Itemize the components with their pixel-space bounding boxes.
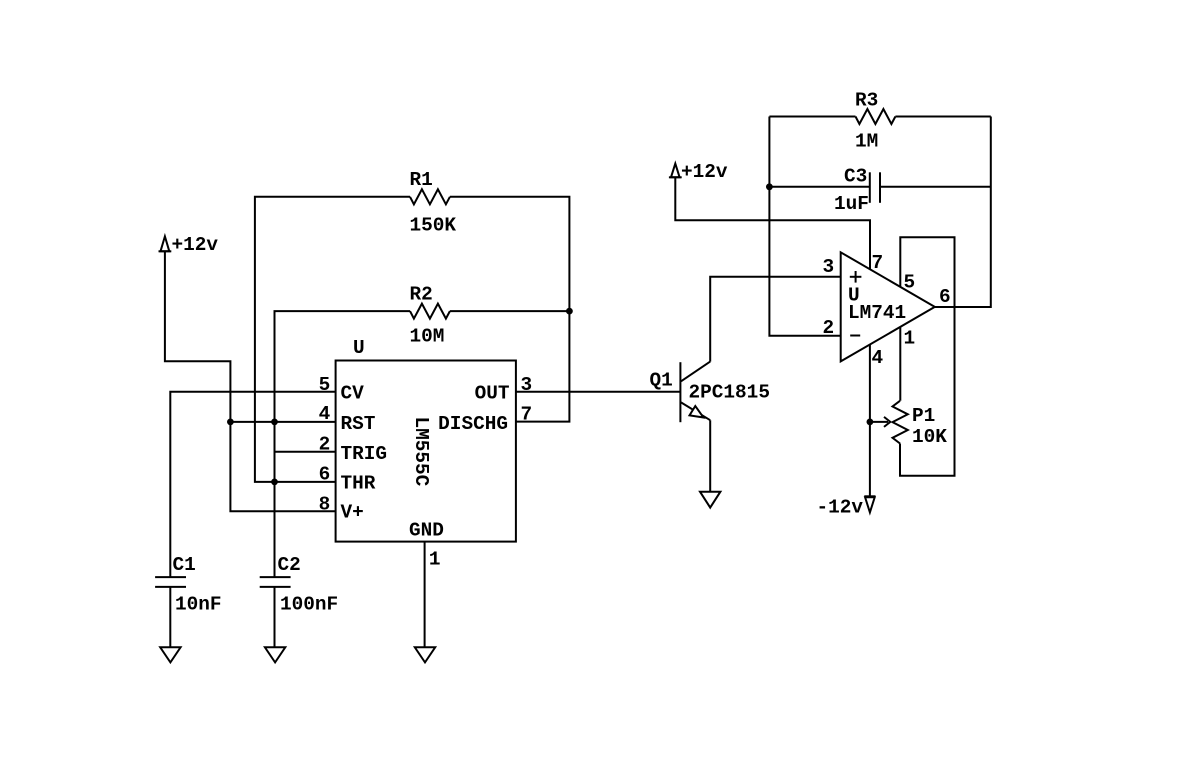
junction dot wiper/pin 4 (867, 419, 874, 426)
svg-text:+12v: +12v (681, 161, 728, 183)
svg-text:C1: C1 (173, 554, 196, 576)
junction dot C3/left vertical (766, 183, 773, 190)
junction dot R2/right vertical (566, 308, 573, 315)
svg-text:C2: C2 (278, 554, 301, 576)
wire R3 row right (895, 116, 990, 118)
wire R2 left down to C2 (275, 311, 411, 577)
ground C1 (160, 647, 180, 662)
capacitor C1 (155, 577, 186, 587)
svg-text:10nF: 10nF (175, 594, 222, 616)
wire C2 to ground (274, 587, 276, 647)
svg-text:U: U (353, 337, 365, 359)
svg-text:1uF: 1uF (834, 193, 869, 215)
svg-text:5: 5 (904, 272, 916, 294)
svg-text:P1: P1 (912, 405, 935, 427)
svg-text:1M: 1M (855, 130, 878, 152)
op-amp U2 LM741 (841, 252, 935, 361)
resistor R3 (856, 109, 896, 124)
svg-text:7: 7 (872, 252, 884, 274)
svg-text:+12v: +12v (172, 234, 219, 256)
power symbol -12v (864, 496, 875, 512)
wire C3 right (880, 186, 991, 188)
resistor R2 (410, 304, 450, 319)
junction dot RST/R2 (271, 419, 278, 426)
svg-text:LM555C: LM555C (410, 417, 432, 487)
junction dot +12v/RST (227, 419, 234, 426)
wire +12v left to V+ pin 8 (165, 251, 336, 511)
wire pin 5 loop to pot bottom (900, 237, 955, 476)
svg-text:R1: R1 (410, 169, 433, 191)
junction dot THR/R2 (271, 479, 278, 486)
svg-text:C3: C3 (844, 165, 867, 187)
ground C2 (265, 647, 285, 662)
wire R2 right (450, 310, 570, 312)
potentiometer P1 (893, 401, 908, 444)
wire feedback left vertical to pin 2 (769, 117, 840, 336)
wire GND pin 1 (424, 542, 426, 648)
wire C3 left (769, 186, 869, 188)
svg-text:TRIG: TRIG (341, 443, 388, 465)
wire OUT pin 3 to Q1 base (516, 391, 681, 393)
wire +12v right to op-amp pin 7 (675, 177, 870, 269)
svg-text:4: 4 (872, 347, 884, 369)
wire CV pin 5 to C1 (170, 392, 335, 577)
svg-text:V+: V+ (341, 502, 364, 524)
svg-text:1: 1 (904, 328, 916, 350)
svg-text:Q1: Q1 (650, 369, 673, 391)
power symbol +12v right (669, 164, 682, 178)
svg-text:2PC1815: 2PC1815 (689, 381, 770, 403)
ground 555 (415, 647, 435, 662)
wire TRIG stub (275, 451, 336, 453)
svg-text:150K: 150K (410, 215, 457, 237)
svg-text:CV: CV (341, 383, 365, 405)
svg-text:100nF: 100nF (280, 594, 338, 616)
wire RST row (230, 421, 335, 423)
svg-text:RST: RST (341, 413, 376, 435)
svg-text:R3: R3 (855, 89, 878, 111)
capacitor C3 (870, 172, 880, 203)
plus input mark (850, 271, 862, 283)
svg-text:6: 6 (319, 464, 331, 486)
wire Q1 collector to op-amp pin 3 (710, 277, 841, 362)
wire feedback right vertical to output pin 6 (935, 117, 991, 308)
IC U1 LM555C box (336, 361, 516, 542)
svg-text:10M: 10M (410, 326, 445, 348)
svg-text:5: 5 (319, 374, 331, 396)
svg-text:2: 2 (319, 433, 331, 455)
svg-text:7: 7 (521, 404, 533, 426)
wire pin 1 to pot top (899, 327, 901, 401)
wire R3 row left (769, 116, 855, 118)
wire op-amp pin 4 to -12v (869, 345, 871, 497)
power symbol +12v left (159, 236, 172, 251)
wire C1 to ground (169, 587, 171, 647)
svg-text:4: 4 (319, 403, 331, 425)
wiper arrow P1 (870, 417, 890, 427)
svg-text:-12v: -12v (817, 497, 864, 519)
capacitor C2 (260, 577, 291, 587)
wire R1 left to THR row (255, 197, 410, 482)
resistor R1 (410, 189, 450, 204)
svg-text:GND: GND (409, 519, 444, 541)
svg-text:8: 8 (319, 494, 331, 516)
svg-text:DISCHG: DISCHG (438, 413, 508, 435)
minus input mark (850, 335, 860, 337)
svg-text:10K: 10K (912, 426, 947, 448)
svg-text:1: 1 (429, 549, 441, 571)
transistor Q1 (680, 362, 710, 423)
svg-text:3: 3 (823, 256, 835, 278)
ground Q1 (700, 492, 720, 508)
svg-text:OUT: OUT (475, 383, 510, 405)
svg-text:THR: THR (341, 473, 376, 495)
wire Q1 emitter to ground (709, 420, 711, 492)
svg-text:LM741: LM741 (848, 302, 906, 324)
svg-text:R2: R2 (410, 284, 433, 306)
svg-text:6: 6 (939, 286, 951, 308)
wire R1 right to DISCHG pin 7 (450, 197, 570, 422)
